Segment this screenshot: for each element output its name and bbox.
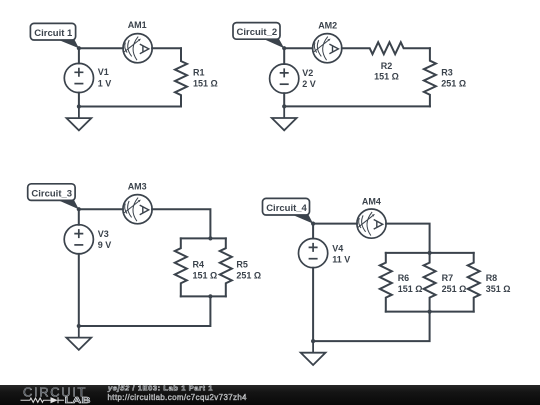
svg-text:AM2: AM2 [318, 20, 337, 30]
wire group to bottom circuit4 [313, 312, 430, 342]
node circuit4 rail bottom [428, 310, 432, 314]
svg-text:Circuit 1: Circuit 1 [34, 28, 73, 39]
svg-text:R2: R2 [381, 61, 393, 71]
node circuit4 bottom [311, 339, 315, 343]
resistor R3 [424, 48, 436, 106]
wire node to AM1 [79, 47, 123, 49]
bottom rail circuit3 [181, 295, 226, 297]
net label Circuit_4 flag [291, 214, 313, 223]
voltage source V1 [64, 63, 93, 92]
net label Circuit_4 box [263, 198, 310, 215]
svg-text:Circuit_3: Circuit_3 [31, 188, 72, 199]
node circuit4 top [311, 222, 315, 226]
svg-text:AM4: AM4 [362, 196, 381, 206]
svg-text:http://circuitlab.com/c7cqu2v7: http://circuitlab.com/c7cqu2v737zh4 [108, 393, 248, 402]
voltage source V4 [299, 239, 328, 268]
voltage source V2 [270, 64, 299, 93]
svg-text:R6: R6 [398, 273, 410, 283]
ammeter AM1 [123, 34, 152, 63]
voltage source V4 stubs [312, 224, 314, 342]
wire AM1 to R1 top corner [152, 47, 181, 49]
node circuit2 top [282, 46, 286, 50]
node circuit1 top [77, 46, 81, 50]
resistor R1 [175, 48, 187, 106]
svg-text:251 Ω: 251 Ω [441, 79, 466, 89]
net label Circuit 1 box [30, 23, 75, 40]
svg-text:151 Ω: 151 Ω [374, 72, 399, 82]
svg-text:251 Ω: 251 Ω [442, 284, 467, 294]
svg-text:2 V: 2 V [302, 79, 316, 89]
svg-text:R1: R1 [193, 68, 205, 78]
resistor R2 [342, 42, 430, 54]
svg-text:V2: V2 [302, 68, 313, 78]
top rail circuit3 [181, 237, 226, 239]
svg-text:9 V: 9 V [98, 240, 112, 250]
svg-text:R5: R5 [236, 259, 248, 269]
resistor R8 [468, 253, 480, 312]
svg-text:AM1: AM1 [128, 20, 147, 30]
svg-text:151 Ω: 151 Ω [398, 284, 423, 294]
node circuit2 bottom [282, 104, 286, 108]
node circuit3 rail bottom [208, 294, 212, 298]
resistor R5 [220, 238, 232, 296]
wire node to AM3 [79, 208, 123, 210]
ammeter AM3 [123, 195, 152, 224]
svg-text:351 Ω: 351 Ω [486, 284, 511, 294]
net label Circuit_2 flag [262, 38, 284, 48]
node circuit3 rail top [208, 236, 212, 240]
ground circuit4 [301, 341, 326, 365]
svg-text:R8: R8 [486, 273, 498, 283]
svg-text:Circuit_4: Circuit_4 [266, 203, 307, 214]
node circuit4 rail top [428, 251, 432, 255]
svg-text:Circuit_2: Circuit_2 [237, 27, 278, 38]
svg-text:151 Ω: 151 Ω [193, 271, 218, 281]
svg-text:V3: V3 [98, 229, 109, 239]
ground circuit1 [67, 107, 92, 131]
svg-text:251 Ω: 251 Ω [236, 271, 261, 281]
ground circuit2 [272, 106, 297, 130]
svg-text:AM3: AM3 [128, 182, 147, 192]
wire node to AM4 [313, 223, 357, 225]
node circuit1 bottom [77, 104, 81, 108]
net label Circuit_3 box [28, 184, 75, 201]
ground circuit3 [66, 326, 91, 350]
ammeter AM4 [357, 209, 386, 238]
svg-text:11 V: 11 V [332, 255, 350, 265]
svg-text:R3: R3 [441, 68, 453, 78]
svg-text:yej52 / 1E03: Lab 1 Part 1: yej52 / 1E03: Lab 1 Part 1 [107, 384, 213, 393]
node circuit3 top [77, 207, 81, 211]
logo wire resistor diode glyph [21, 397, 65, 403]
resistor R7 [424, 253, 436, 312]
wire node to AM2 [284, 47, 312, 49]
svg-text:LAB: LAB [65, 396, 91, 405]
voltage source V3 [64, 225, 93, 254]
wire bottom circuit1 [79, 106, 181, 108]
svg-text:1 V: 1 V [98, 78, 112, 88]
svg-text:R4: R4 [193, 259, 205, 269]
top rail circuit4 [386, 252, 474, 254]
voltage source V3 stubs [78, 209, 80, 326]
voltage source V2 stubs [283, 48, 285, 106]
wire group to bottom circuit3 [79, 296, 211, 326]
net label Circuit 1 flag [57, 39, 79, 48]
bottom rail circuit4 [386, 311, 474, 313]
wire AM4 to corner, down [386, 224, 430, 253]
voltage source V1 stubs [78, 48, 80, 106]
node circuit3 bottom [77, 324, 81, 328]
svg-text:V1: V1 [98, 67, 109, 77]
svg-text:151 Ω: 151 Ω [193, 79, 218, 89]
wire bottom circuit2 [284, 105, 430, 107]
ammeter AM2 [313, 34, 342, 63]
resistor R6 [380, 253, 392, 312]
resistor R4 [175, 238, 187, 296]
svg-text:V4: V4 [332, 244, 343, 254]
net label Circuit_3 flag [57, 200, 79, 210]
svg-text:R7: R7 [442, 273, 454, 283]
net label Circuit_2 box [233, 23, 280, 40]
wire AM3 to corner, down to parallel group [152, 209, 210, 238]
